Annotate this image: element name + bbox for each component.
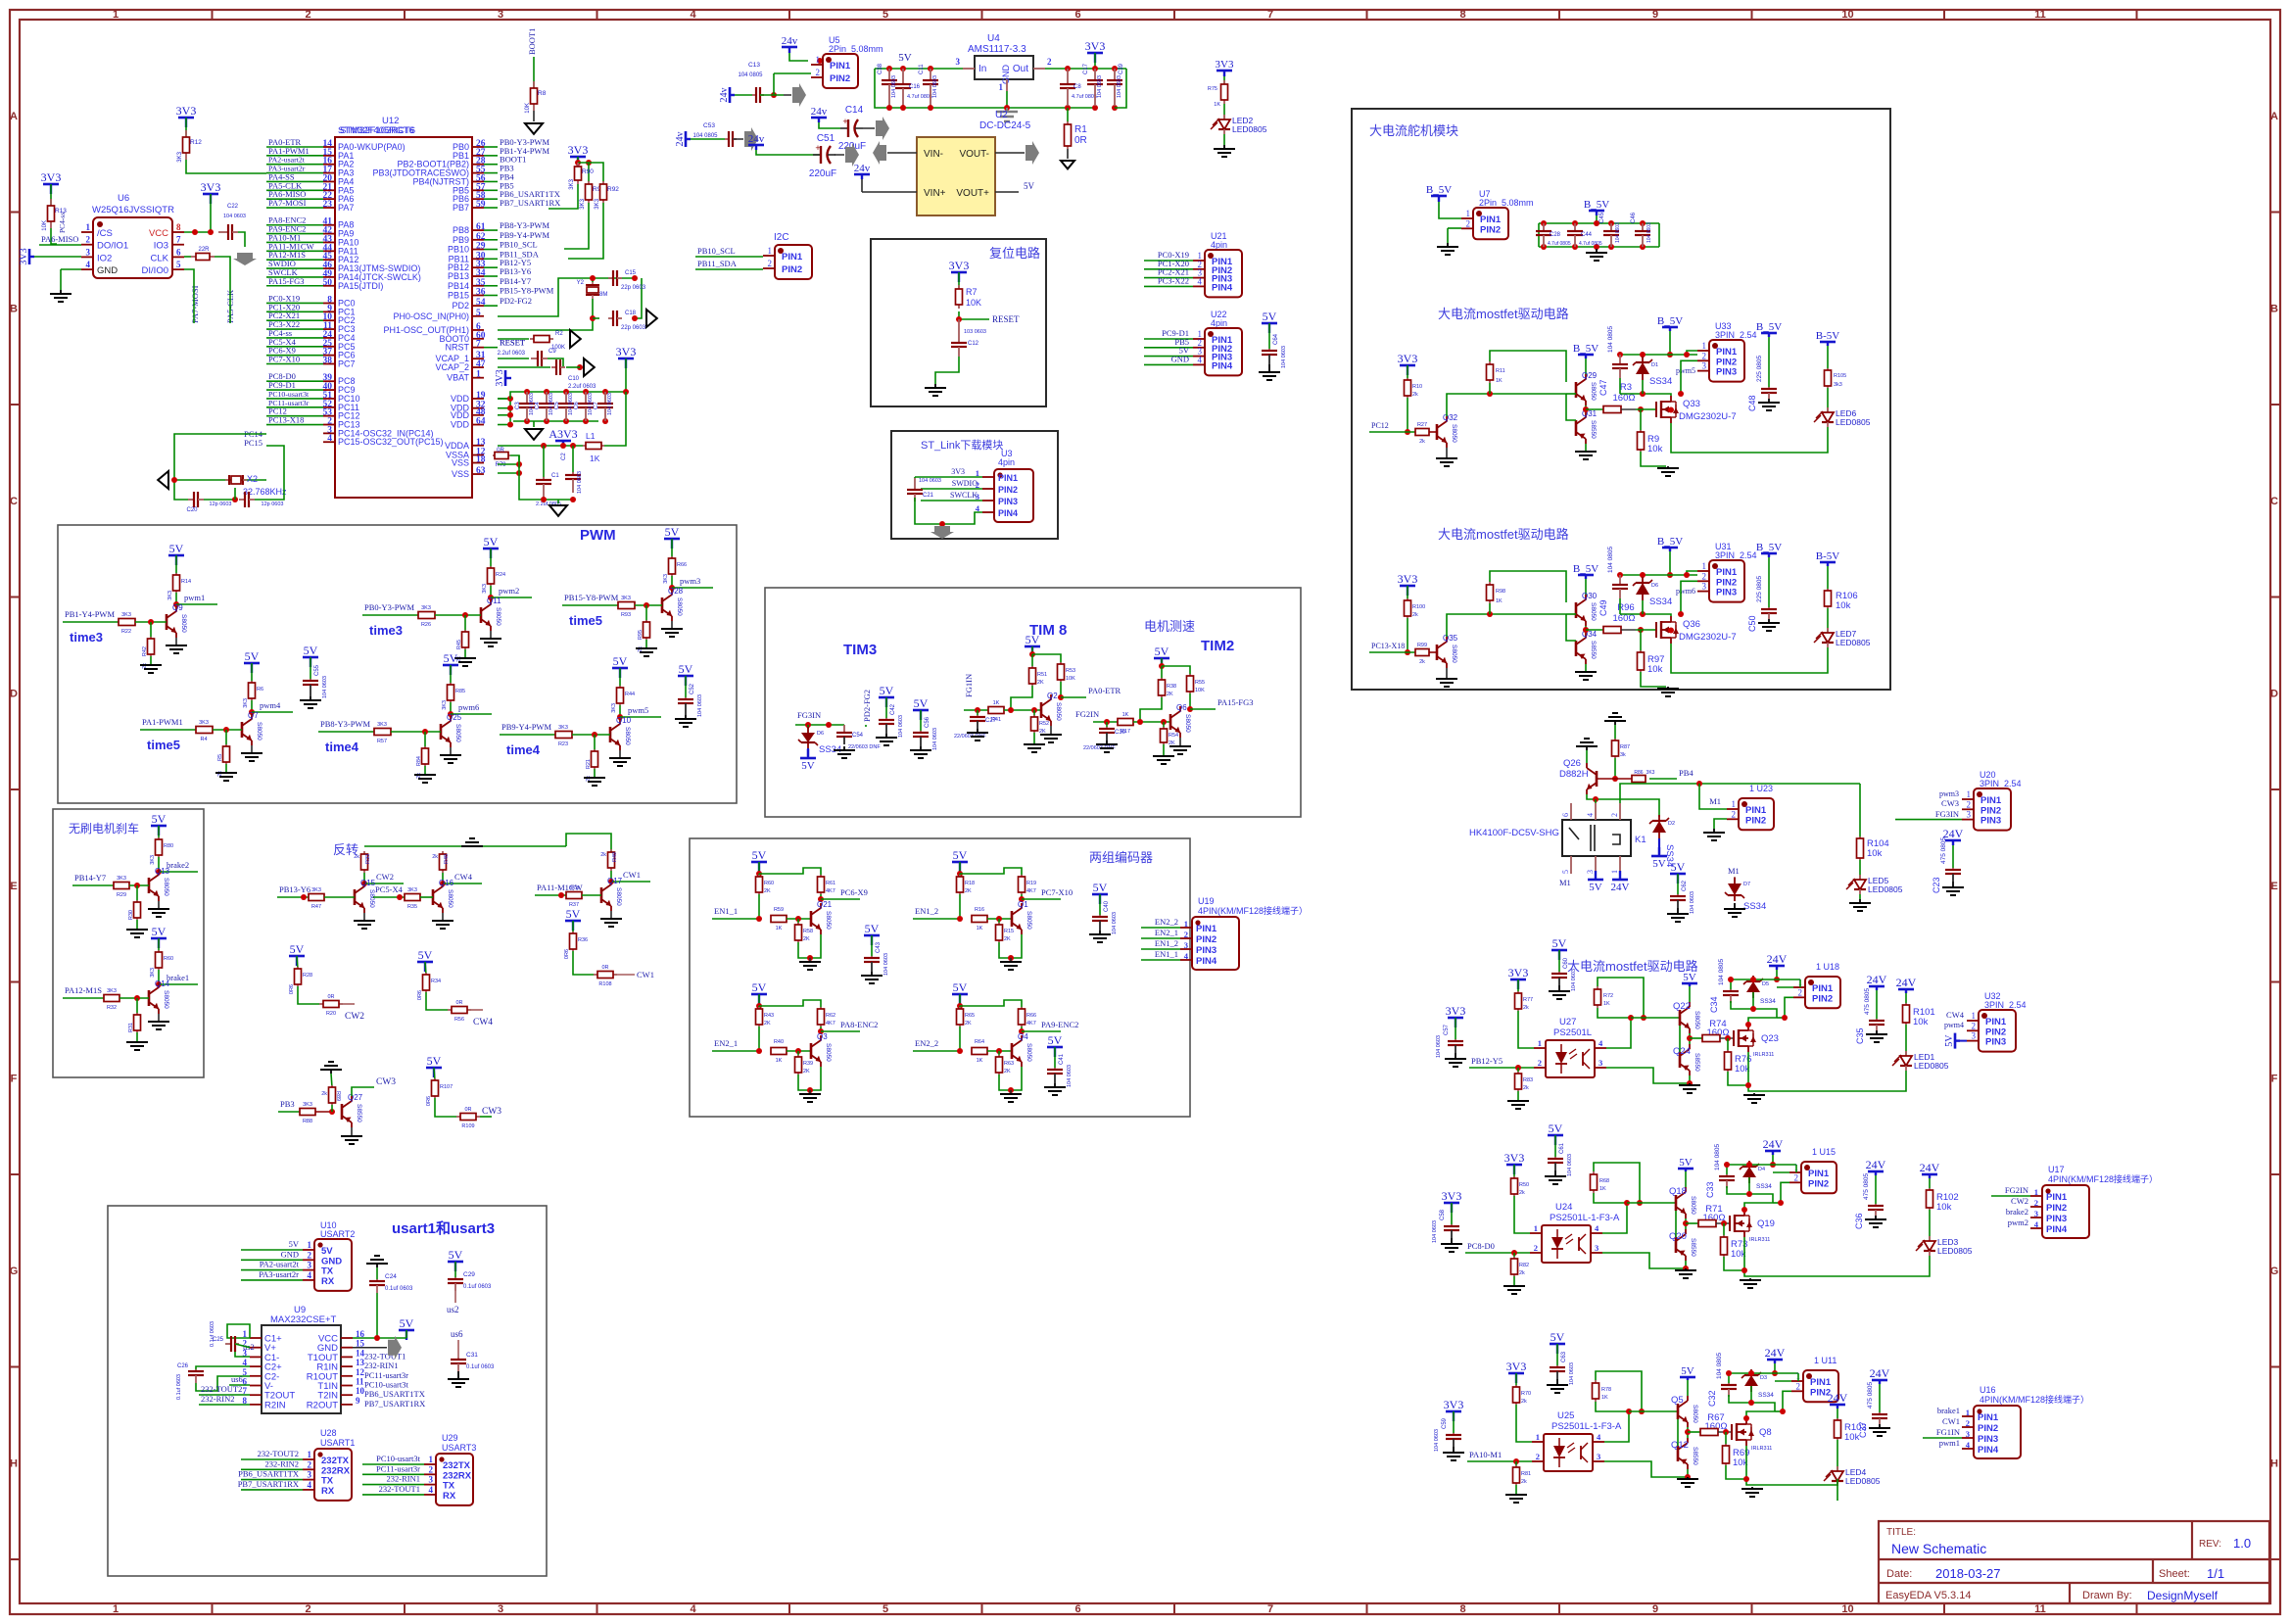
wire Q32 collector to base rail: [1447, 394, 1566, 416]
ground (Q6): [1179, 738, 1181, 746]
power flag 5V (C29): [448, 1248, 463, 1271]
svg-text:232-TOUT1: 232-TOUT1: [379, 1484, 420, 1494]
transistor Q21 S8050: [810, 911, 813, 927]
svg-text:24v: 24v: [675, 132, 686, 147]
svg-text:R5: R5: [217, 754, 223, 761]
svg-text:R40: R40: [774, 1039, 784, 1045]
svg-text:3V3: 3V3: [201, 180, 221, 194]
svg-text:5V: 5V: [484, 535, 499, 549]
svg-text:S8050: S8050: [624, 727, 631, 745]
svg-text:5V: 5V: [1024, 181, 1035, 191]
svg-text:104 0805: 104 0805: [738, 72, 763, 78]
capacitor C35 475 0805: [1876, 990, 1878, 1019]
ground (C61): [1554, 1170, 1556, 1176]
svg-text:PB13-Y6: PB13-Y6: [500, 266, 531, 276]
svg-text:3: 3: [1967, 810, 1972, 820]
svg-text:PIN3: PIN3: [1716, 588, 1737, 598]
svg-text:19: 19: [476, 391, 486, 401]
svg-text:R50: R50: [1519, 1182, 1529, 1188]
power flag B-5V (LED6): [1816, 330, 1840, 346]
power flag B_5V (Q29): [1573, 343, 1598, 358]
svg-text:7: 7: [176, 235, 181, 245]
U6 pin 6 CLK: [172, 256, 184, 258]
U12 pin 50 PA15(JTDI): [323, 285, 335, 287]
svg-text:PB11_SDA: PB11_SDA: [697, 259, 738, 268]
svg-text:R64: R64: [975, 1039, 984, 1045]
power flag 3V3 (reset): [949, 259, 970, 282]
resistor R59 1K: [770, 918, 772, 920]
svg-text:DC-DC24-5: DC-DC24-5: [979, 120, 1031, 131]
svg-text:PS2501L-1-F3-A: PS2501L-1-F3-A: [1551, 1421, 1622, 1432]
U12 pin 12 VSSA: [472, 454, 484, 456]
svg-text:PB14-Y7: PB14-Y7: [500, 276, 531, 286]
svg-text:L1: L1: [586, 431, 596, 441]
svg-text:S8050: S8050: [1184, 714, 1191, 733]
svg-text:DMG2302U-7: DMG2302U-7: [1679, 632, 1737, 643]
svg-text:Q5: Q5: [1671, 1395, 1684, 1406]
svg-text:1.0: 1.0: [2233, 1536, 2251, 1551]
net pwm3: [671, 576, 673, 588]
power flag 5V (C64): [1262, 310, 1277, 333]
power flag 5V (Q10 cell): [612, 654, 628, 678]
svg-text:5V: 5V: [444, 651, 458, 665]
power flag 3V3 (LED2): [1216, 59, 1234, 76]
ground below LED2: [1223, 134, 1225, 145]
ground (Q21): [809, 958, 811, 962]
pin 1 232TX: [303, 1458, 314, 1460]
svg-text:8: 8: [1459, 1603, 1465, 1615]
svg-text:3K3: 3K3: [1646, 770, 1655, 776]
power flag 5V (D2): [1658, 838, 1660, 854]
svg-text:PC9-D1: PC9-D1: [268, 380, 296, 390]
ground (C41): [1054, 1083, 1056, 1087]
svg-text:6: 6: [1561, 813, 1570, 817]
wire bases tie Q22 Q24: [1679, 1026, 1681, 1052]
U12 pin 43 PA10: [323, 241, 335, 243]
capacitor C49 104 0805: [1619, 575, 1621, 585]
svg-text:FG3IN: FG3IN: [1935, 809, 1959, 819]
ground (R97): [1667, 687, 1669, 689]
svg-text:C38: C38: [878, 63, 883, 74]
diode D7 SS34: [1734, 877, 1736, 882]
svg-text:1K: 1K: [776, 1058, 783, 1064]
svg-text:PIN1: PIN1: [782, 252, 803, 263]
svg-text:R66: R66: [1026, 1013, 1036, 1019]
power flag B_5V (U7): [1426, 184, 1452, 202]
capacitor C32 104 0805: [1728, 1373, 1730, 1383]
svg-text:2: 2: [1966, 1418, 1970, 1428]
capacitor C47 104 0805: [1619, 355, 1621, 364]
svg-text:104 0805: 104 0805: [692, 133, 718, 139]
svg-text:24V: 24V: [1767, 952, 1788, 966]
svg-text:PIN2: PIN2: [1812, 993, 1833, 1004]
svg-text:1 U15: 1 U15: [1812, 1147, 1836, 1157]
capacitor C4 104 0603: [544, 389, 549, 395]
transistor Q1 S8050: [1011, 911, 1014, 927]
K1 top pin 4: [1595, 803, 1597, 820]
U12 pin 22 PA6: [323, 198, 335, 200]
transistor Q10 S8050: [609, 727, 612, 742]
U12 pin 38 PC7: [323, 363, 335, 365]
svg-text:C64: C64: [1273, 333, 1279, 345]
svg-text:3V3: 3V3: [1085, 39, 1106, 53]
U9 pin 16 VCC: [341, 1337, 353, 1339]
gray ground (U4 GND): [1004, 105, 1010, 111]
svg-text:GND: GND: [281, 1249, 299, 1259]
svg-text:S8550: S8550: [1694, 1053, 1700, 1072]
svg-text:Q36: Q36: [1683, 619, 1700, 630]
power flag 5V (Q21): [751, 848, 767, 872]
svg-text:PB13: PB13: [448, 271, 469, 281]
svg-text:CW4: CW4: [473, 1018, 493, 1027]
ground (Q10 emitter): [619, 750, 621, 758]
svg-text:0R6: 0R6: [289, 984, 295, 994]
svg-text:CW1: CW1: [1942, 1416, 1960, 1426]
svg-text:VIN+: VIN+: [924, 188, 946, 199]
resistor R12 3K3: [185, 118, 187, 137]
capacitor C33 104 0805: [1726, 1165, 1728, 1174]
svg-text:24V: 24V: [1867, 973, 1887, 986]
svg-text:PA9-ENC2: PA9-ENC2: [1041, 1020, 1078, 1029]
U9 pin 11 T1IN: [341, 1385, 353, 1387]
svg-text:C18: C18: [625, 310, 637, 316]
svg-text:IO3: IO3: [154, 241, 168, 252]
svg-text:C21: C21: [923, 493, 934, 499]
wire R72 top loop: [1598, 978, 1644, 1018]
U12 pin 63 VSS: [472, 473, 484, 475]
ground (Q13): [158, 901, 160, 909]
U9 pin 13 R1IN: [341, 1365, 353, 1367]
power flag 3V3 (C58): [1442, 1189, 1462, 1213]
ground (Q2): [1050, 726, 1052, 735]
power flag 3V3 (U4 out): [1085, 39, 1106, 63]
wire U5 pin2: [774, 72, 811, 74]
svg-text:S8050: S8050: [163, 878, 169, 896]
svg-text:大电流舵机模块: 大电流舵机模块: [1369, 123, 1458, 138]
resistor R72 1K: [1597, 986, 1598, 989]
resistor R57 3K3: [373, 731, 375, 733]
svg-text:R77: R77: [1523, 997, 1533, 1003]
svg-text:1: 1: [86, 222, 91, 232]
svg-text:3V3: 3V3: [949, 259, 970, 272]
svg-text:3: 3: [498, 1603, 503, 1615]
svg-text:PIN1: PIN1: [1196, 924, 1217, 934]
power flag 3V3 (VBAT) rotated: [495, 369, 511, 386]
svg-text:大电流mostfet驱动电路: 大电流mostfet驱动电路: [1438, 307, 1569, 321]
ground (Q34): [1585, 664, 1587, 672]
svg-text:11: 11: [2034, 1603, 2046, 1615]
svg-text:G: G: [10, 1266, 19, 1277]
svg-text:5: 5: [883, 1603, 888, 1615]
U10 pin 1 5V: [303, 1249, 314, 1251]
svg-text:大电流mostfet驱动电路: 大电流mostfet驱动电路: [1438, 527, 1569, 542]
svg-text:225 0805: 225 0805: [1756, 356, 1763, 382]
svg-text:C13: C13: [748, 62, 760, 69]
svg-text:PB7_USART1RX: PB7_USART1RX: [500, 198, 560, 208]
svg-text:R100: R100: [1412, 604, 1425, 610]
svg-text:R12: R12: [190, 139, 202, 146]
svg-text:R28: R28: [303, 973, 312, 979]
ground (C50): [1768, 619, 1770, 623]
svg-text:Q30: Q30: [1582, 592, 1598, 600]
svg-text:W25Q16JVSSIQTR: W25Q16JVSSIQTR: [92, 205, 174, 215]
power flag 3V3 (R13): [41, 170, 62, 194]
power flag 24V (C36): [1866, 1158, 1886, 1175]
ground (Q20): [1685, 1261, 1687, 1268]
svg-text:3: 3: [429, 1475, 434, 1485]
capacitor C30 22/0603 DNF: [1106, 722, 1108, 727]
svg-text:R47: R47: [311, 904, 321, 910]
svg-text:time3: time3: [70, 630, 103, 645]
wire reverse collector bus: [364, 845, 566, 847]
svg-text:S8050: S8050: [1451, 645, 1457, 663]
svg-text:4: 4: [1586, 813, 1595, 817]
wire R92 to PB11_SDA: [568, 203, 603, 259]
svg-text:5V: 5V: [290, 942, 305, 956]
U9 pin 1 C1+: [250, 1337, 262, 1339]
svg-text:475 0805: 475 0805: [1940, 837, 1947, 864]
svg-text:D3: D3: [1760, 1375, 1767, 1381]
svg-text:5V: 5V: [1263, 310, 1277, 323]
inverted ground (Q27 cell): [330, 1069, 332, 1071]
svg-text:A: A: [10, 111, 18, 122]
svg-text:C29: C29: [463, 1271, 475, 1278]
U9 pin 4 C2+: [250, 1365, 262, 1367]
ground (LED5): [1859, 894, 1861, 899]
resistor R14 3K3: [175, 555, 177, 575]
power flag 5V (U32 pin3): [1944, 1033, 1960, 1049]
svg-text:VDD: VDD: [451, 420, 470, 430]
svg-text:Q32: Q32: [1443, 413, 1458, 422]
svg-text:104 0603: 104 0603: [1432, 1220, 1438, 1243]
capacitor C28 4.7uf0805: [1543, 223, 1545, 231]
transistor Q13 S8050: [148, 878, 151, 893]
gray ground (VOUT-): [1026, 141, 1039, 165]
U12 pin 1 VBAT: [472, 377, 484, 379]
U12 pin 36 PB15: [472, 295, 484, 297]
net brake2: [158, 857, 160, 872]
svg-text:5V: 5V: [152, 812, 167, 826]
ground (Q1): [1010, 958, 1012, 962]
svg-text:U4: U4: [987, 33, 1000, 44]
svg-text:C36: C36: [1854, 1213, 1864, 1229]
svg-text:PB10_SCL: PB10_SCL: [500, 240, 538, 250]
svg-text:1: 1: [1534, 1223, 1538, 1233]
U12 pin 49 PA14(JTCK-SWCLK): [323, 276, 335, 278]
U9 pin 6 V-: [250, 1385, 262, 1387]
svg-text:4: 4: [1198, 276, 1203, 286]
svg-text:PIN4: PIN4: [1212, 282, 1233, 293]
svg-text:U16: U16: [1980, 1385, 1996, 1395]
ground (Q27): [351, 1127, 353, 1136]
svg-text:USART1: USART1: [320, 1438, 355, 1448]
svg-text:brake2: brake2: [2006, 1207, 2028, 1217]
U12 pin 8 PC0: [323, 302, 335, 304]
svg-text:PB8-Y3-PWM: PB8-Y3-PWM: [320, 719, 370, 729]
svg-text:Q8: Q8: [1759, 1427, 1772, 1438]
svg-text:R1: R1: [1074, 124, 1087, 135]
svg-text:24V: 24V: [1828, 1391, 1848, 1405]
U12 pin 20 PA4: [323, 180, 335, 182]
resistor R42 2k: [150, 622, 152, 639]
svg-text:C17: C17: [1083, 63, 1089, 74]
svg-text:PC11-usart3r: PC11-usart3r: [364, 1370, 408, 1380]
ground (C62): [1677, 908, 1679, 914]
svg-text:C14: C14: [845, 105, 864, 116]
svg-text:475 0805: 475 0805: [1863, 1173, 1870, 1200]
svg-text:4pin: 4pin: [998, 457, 1015, 467]
svg-text:PA7: PA7: [338, 203, 354, 213]
svg-text:us2: us2: [447, 1305, 459, 1314]
mosfet Q31Q29 driver output: [1636, 408, 1656, 410]
svg-text:R2IN: R2IN: [264, 1400, 286, 1410]
svg-text:104 0603: 104 0603: [1117, 75, 1122, 98]
svg-text:S8050: S8050: [1694, 1011, 1700, 1029]
svg-text:232-RIN2: 232-RIN2: [201, 1394, 234, 1404]
svg-text:CW4: CW4: [454, 872, 473, 882]
svg-text:2K: 2K: [1167, 692, 1173, 697]
U12 pin 53 PC12: [323, 415, 335, 417]
U12 pin 57 PB5: [472, 189, 484, 191]
svg-text:S8050: S8050: [1690, 1196, 1696, 1215]
svg-text:R72: R72: [1603, 993, 1613, 999]
power flag B_5V (Q30): [1573, 563, 1598, 579]
svg-text:9: 9: [356, 1396, 360, 1406]
U16 pin 1 brake1: [1962, 1415, 1974, 1417]
transistor Q16 S8050: [432, 889, 435, 905]
svg-text:4: 4: [86, 260, 91, 269]
ground (Q32): [1446, 448, 1448, 458]
resistor R106 10k: [1827, 566, 1829, 591]
svg-text:PB9-Y4-PWM: PB9-Y4-PWM: [501, 722, 551, 732]
svg-text:R11: R11: [1496, 368, 1505, 374]
capacitor C8 4.7uf0805: [1067, 69, 1069, 84]
svg-text:F: F: [2271, 1074, 2278, 1085]
power flag 5V (C42): [879, 684, 894, 707]
pin 2 232RX: [424, 1473, 436, 1475]
svg-text:R93: R93: [621, 612, 631, 618]
svg-text:5V: 5V: [752, 980, 767, 994]
resistor R28: [297, 956, 298, 969]
svg-text:1: 1: [1702, 561, 1707, 571]
U12 pin 30 PB11: [472, 258, 484, 260]
svg-text:PIN4: PIN4: [1196, 956, 1217, 967]
svg-text:G: G: [2270, 1266, 2279, 1277]
ground (R45): [464, 649, 466, 658]
capacitor C41 104 0603: [1054, 1047, 1056, 1068]
svg-text:S8050: S8050: [1026, 1043, 1032, 1062]
resistor R79 0R (VSSA): [494, 454, 498, 456]
svg-text:10K: 10K: [525, 103, 531, 114]
svg-text:24V: 24V: [1920, 1161, 1940, 1174]
svg-text:2: 2: [1967, 799, 1972, 809]
svg-text:103 0603: 103 0603: [964, 329, 986, 335]
wire bases tie Q18 Q20: [1675, 1211, 1677, 1237]
svg-text:5: 5: [476, 309, 481, 318]
resistor R29 3K3: [113, 884, 115, 886]
svg-text:PA7-MOSI: PA7-MOSI: [268, 198, 307, 208]
svg-text:24V: 24V: [1765, 1346, 1786, 1360]
net pwm6: [450, 702, 452, 714]
gray ground (ST_Link): [930, 526, 954, 539]
K1 bottom pin 1: [1619, 856, 1621, 874]
svg-text:PC6-X9: PC6-X9: [840, 887, 868, 897]
svg-text:3V3: 3V3: [1444, 1398, 1464, 1411]
svg-text:104 0603: 104 0603: [223, 214, 246, 219]
svg-text:PWM: PWM: [580, 527, 616, 544]
svg-text:SS34: SS34: [1649, 376, 1672, 387]
net pwm2: [490, 586, 492, 597]
resistor R5 2k: [225, 730, 227, 746]
diode D5 SS34: [1752, 976, 1754, 981]
svg-text:4: 4: [1198, 355, 1203, 364]
title block: [1879, 1521, 2269, 1603]
svg-text:pwm1: pwm1: [1939, 1438, 1960, 1448]
svg-text:4K7: 4K7: [826, 1021, 835, 1027]
svg-text:R66: R66: [677, 562, 687, 568]
transistor Q35 S8050: [1436, 645, 1439, 660]
resistor R19 4K7: [1021, 875, 1023, 877]
svg-text:104 0603: 104 0603: [1690, 891, 1695, 914]
svg-text:R79: R79: [495, 462, 506, 468]
U12 pin 42 PA9: [323, 233, 335, 235]
svg-text:Q1: Q1: [1018, 900, 1028, 909]
svg-text:R80: R80: [164, 843, 173, 849]
power flag 24V (K1 pin1): [1612, 879, 1628, 882]
resistor R108 0R / net CW1: [573, 951, 594, 975]
svg-text:5V: 5V: [801, 760, 815, 772]
wire collector pullup Q4: [960, 1000, 1022, 1009]
net pwm5: [619, 705, 621, 717]
svg-text:PC5-X4: PC5-X4: [375, 884, 404, 894]
U19 pin 2 EN2_1: [1180, 937, 1192, 939]
power flag 3V3 (R77): [1508, 966, 1529, 989]
power flag 5V (Q7 cell): [244, 649, 260, 673]
power flag 5V (C55): [303, 644, 318, 667]
svg-text:2: 2: [1732, 809, 1737, 819]
ground (C57): [1455, 1053, 1456, 1059]
U3 pin 2: [982, 488, 994, 490]
power flag 5V (R34): [417, 948, 433, 972]
svg-text:RX: RX: [321, 1276, 335, 1287]
svg-text:6: 6: [1074, 1603, 1080, 1615]
power flag 5V (Q9 cell): [168, 542, 184, 565]
svg-text:24v: 24v: [748, 133, 765, 145]
svg-text:1: 1: [476, 370, 481, 380]
svg-text:U28: U28: [320, 1428, 337, 1438]
LED LED4 LED0805: [1837, 1440, 1838, 1471]
svg-text:B_5V: B_5V: [1426, 184, 1452, 196]
svg-text:4: 4: [690, 1603, 696, 1615]
svg-text:R82: R82: [1519, 1263, 1529, 1268]
svg-text:1K: 1K: [977, 926, 983, 931]
section box encoders: [690, 838, 1190, 1117]
svg-text:2: 2: [1610, 813, 1619, 817]
svg-text:38: 38: [323, 357, 333, 366]
ground arrow below R8: [533, 111, 535, 121]
net PC13-X18: [1407, 618, 1408, 652]
svg-text:5V: 5V: [613, 654, 628, 668]
svg-text:GND: GND: [97, 265, 118, 276]
ground (C36): [1875, 1216, 1877, 1219]
svg-text:64: 64: [476, 417, 486, 427]
resistor R60 3K3: [158, 938, 160, 952]
svg-text:232-TOUT2: 232-TOUT2: [201, 1384, 242, 1394]
svg-text:104 0603: 104 0603: [932, 728, 938, 750]
svg-text:PB14: PB14: [448, 281, 469, 291]
wire D3 bottom net: [1729, 1395, 1775, 1411]
svg-text:C1: C1: [551, 473, 559, 479]
